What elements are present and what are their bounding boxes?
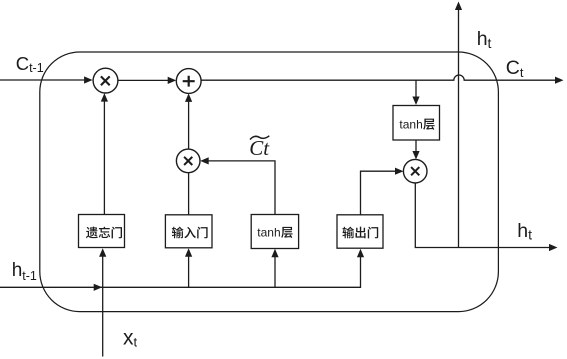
wire branch down from C line to output tanh layer (415, 80, 417, 99)
multiply node after output gate (403, 159, 427, 183)
arrowhead into output multiply from left (395, 168, 404, 175)
wire cell state line with hop over h line, exits right as Ct (201, 75, 555, 80)
arrowhead into forget multiply from below (101, 93, 108, 102)
arrowhead into output gate from below (357, 249, 364, 257)
arrowhead into forget gate from below (99, 248, 106, 257)
svg-text:xt: xt (123, 326, 138, 349)
wire xt vertical input through ht-1 line to forget gate (102, 256, 104, 357)
wire output tanh layer to output multiply (415, 140, 417, 153)
box output tanh layer (393, 106, 440, 141)
svg-text:Ct: Ct (506, 57, 524, 80)
wire riser to input gate (188, 256, 190, 287)
add node on cell state line (176, 69, 201, 94)
wire input gate up to input multiply (188, 173, 190, 215)
wire input multiply up to add node (188, 100, 190, 149)
wire candidate Ct from bottom tanh layer to input multiply (207, 161, 275, 215)
arrowhead into output tanh layer from above (412, 97, 419, 106)
wire riser to bottom tanh layer (274, 256, 276, 287)
arrowhead into input multiply from right (200, 157, 209, 164)
label candidate C tilde t (249, 136, 270, 160)
svg-text:ht: ht (517, 220, 532, 243)
svg-text:ht: ht (477, 28, 492, 51)
box candidate tanh layer (251, 215, 298, 249)
arrowhead into bottom tanh layer from below (271, 249, 278, 257)
LSTM cell body rounded rectangle (40, 52, 499, 312)
box forget gate 遗忘门 (79, 215, 125, 248)
svg-text:tanh: tanh (399, 118, 422, 132)
svg-text:tanh: tanh (257, 226, 280, 240)
arrowhead into add node from below (185, 93, 192, 102)
wire ht branch up through cell top to top output (458, 10, 460, 248)
arrowhead ht output top (455, 2, 462, 11)
wire forget gate up to forget multiply (103, 100, 105, 215)
svg-text:ht-1: ht-1 (12, 260, 37, 283)
svg-text:Ct-1: Ct-1 (16, 53, 44, 75)
arrowhead Ct output right (555, 77, 564, 84)
arrowhead on ht-1 line at xt junction (94, 284, 103, 291)
wire forget multiply to add node (118, 79, 168, 81)
svg-text:Ct: Ct (249, 136, 270, 160)
wire ht-1 input line along bottom turning up to output gate (0, 256, 361, 287)
wire output gate up and right into output multiply (361, 171, 397, 214)
arrowhead into input gate from below (185, 248, 192, 257)
box input gate 输入门 (165, 215, 212, 248)
multiply node after forget gate (93, 68, 118, 93)
wire Ct-1 input to forget multiply (0, 79, 85, 81)
box output gate 输出门 (337, 215, 383, 248)
arrowhead ht output right (549, 244, 558, 251)
multiply node after input gate (176, 149, 200, 173)
arrowhead into forget multiply from left (84, 76, 93, 83)
arrowhead into output multiply from above (412, 151, 419, 160)
arrowhead into add node from left (168, 77, 177, 84)
wire output multiply down then right, exits right as ht (415, 183, 549, 248)
